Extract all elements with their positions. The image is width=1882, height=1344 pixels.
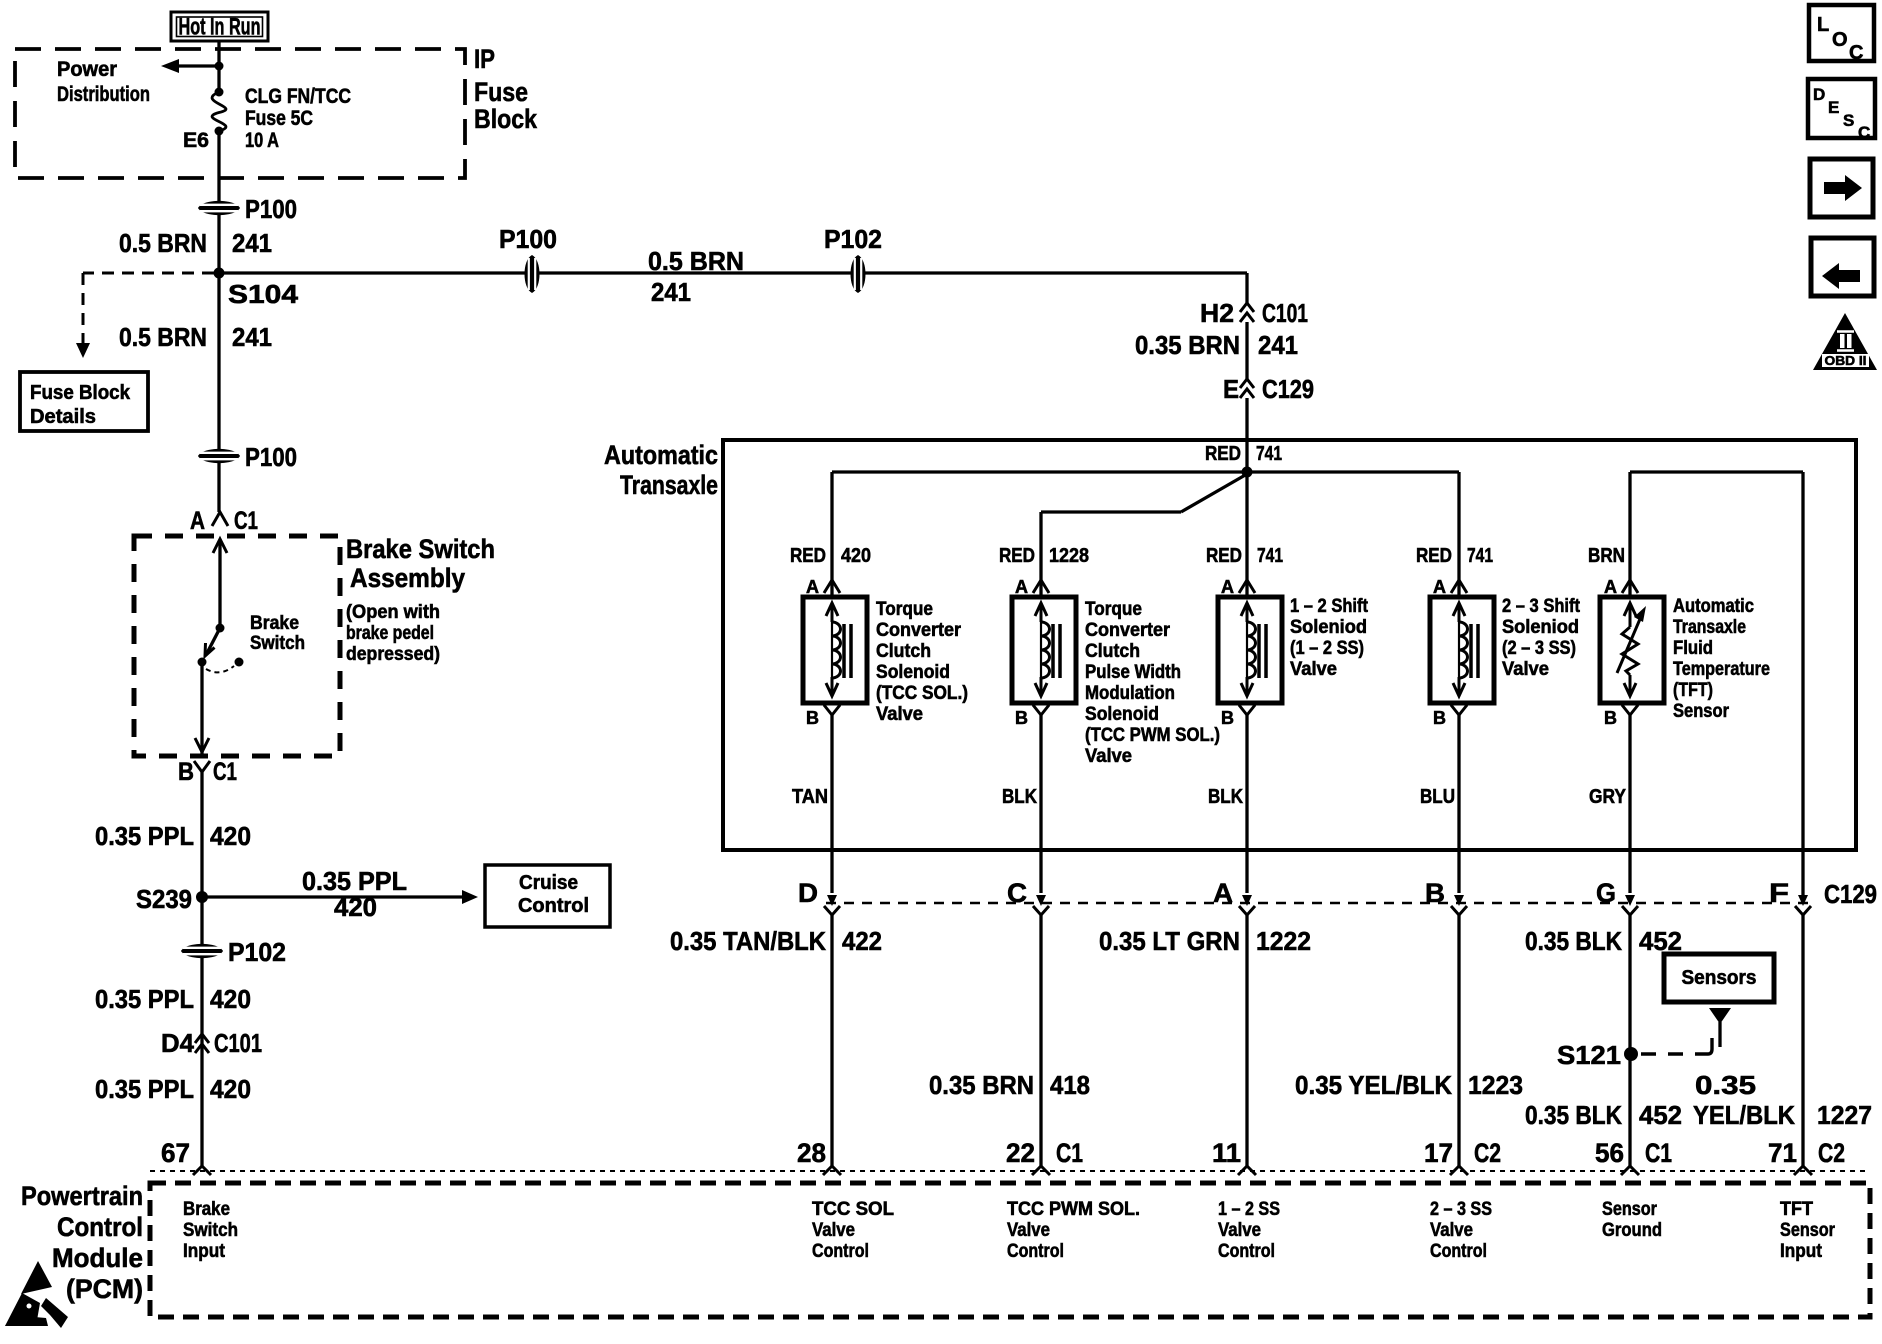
- svg-text:YEL/BLK: YEL/BLK: [1693, 1100, 1795, 1130]
- wire - P100 down to brake switch pin A: [217, 273, 220, 512]
- svg-text:Control: Control: [1430, 1241, 1487, 1262]
- label Automatic Transaxle Fluid Temperature (TFT) Sensor: [1673, 596, 1770, 722]
- svg-text:1227: 1227: [1817, 1100, 1872, 1130]
- svg-text:67: 67: [161, 1138, 190, 1168]
- PCM connector face (thin dashed): [150, 1170, 1870, 1172]
- svg-text:(PCM): (PCM): [66, 1274, 143, 1304]
- svg-text:1 – 2 Shift: 1 – 2 Shift: [1290, 596, 1369, 617]
- svg-text:(Open with: (Open with: [346, 602, 440, 623]
- svg-text:B: B: [1425, 878, 1445, 908]
- svg-text:28: 28: [797, 1138, 826, 1168]
- PCM input label at x=1007: [1007, 1199, 1140, 1262]
- wire - Hot In Run to fuse: [217, 41, 220, 92]
- wire label 0.5 BRN 241 (upper): [119, 228, 272, 258]
- wire - splice diagonal to TCC PWM SOL branch: [1041, 474, 1247, 597]
- svg-text:CLG FN/TCC: CLG FN/TCC: [245, 85, 351, 108]
- svg-text:Automatic: Automatic: [1673, 596, 1754, 617]
- wire - RED 741 drop to 1-2 SS: [1245, 472, 1248, 597]
- svg-text:Powertrain: Powertrain: [21, 1181, 143, 1211]
- connector C129 dashed line: [826, 879, 1877, 909]
- wire color label BLU: [1420, 786, 1455, 808]
- svg-text:Control: Control: [518, 895, 589, 917]
- pin A (sol 2-3): [1433, 577, 1467, 597]
- PCM pin 17 C2: [1424, 1138, 1501, 1175]
- pin B (sol 2-3): [1433, 705, 1467, 728]
- svg-text:Valve: Valve: [1085, 746, 1132, 767]
- svg-text:C2: C2: [1474, 1138, 1501, 1168]
- wire label RED 741 (at splice): [1205, 443, 1282, 465]
- pin B (sol TCC PWM): [1015, 705, 1049, 728]
- svg-text:C1: C1: [213, 758, 237, 786]
- svg-text:0.5 BRN: 0.5 BRN: [119, 228, 207, 258]
- wire label 0.35 BRN 241: [1135, 330, 1298, 360]
- connector C129 pin G: [1596, 878, 1638, 915]
- svg-text:A: A: [1604, 577, 1617, 597]
- svg-text:Brake: Brake: [250, 613, 299, 634]
- svg-text:0.35 BRN: 0.35 BRN: [1135, 330, 1240, 360]
- svg-text:Fluid: Fluid: [1673, 638, 1713, 659]
- svg-text:Brake Switch: Brake Switch: [346, 534, 495, 564]
- wire label RED 741 (2-3 SS): [1416, 545, 1493, 567]
- label 2-3 Shift Soleniod (2-3 SS) Valve: [1502, 596, 1581, 680]
- svg-text:B: B: [1015, 708, 1028, 728]
- icon forward arrow button: [1810, 159, 1873, 217]
- svg-text:B: B: [1604, 708, 1617, 728]
- label Torque Converter Clutch Solenoid (TCC SOL.) Valve: [876, 599, 968, 725]
- wire - C129 G to PCM 56 (sensor ground): [1628, 915, 1631, 1166]
- label E6 (fuse pin): [183, 129, 209, 152]
- svg-text:A: A: [806, 577, 819, 597]
- svg-text:S104: S104: [228, 279, 299, 309]
- svg-text:S: S: [1843, 111, 1854, 130]
- svg-text:Soleniod: Soleniod: [1502, 617, 1579, 638]
- svg-text:Module: Module: [52, 1243, 143, 1273]
- svg-text:C2: C2: [1818, 1138, 1845, 1168]
- PCM pin 11: [1212, 1138, 1256, 1175]
- svg-text:Switch: Switch: [250, 633, 305, 654]
- svg-text:241: 241: [232, 322, 272, 352]
- svg-text:Valve: Valve: [1502, 659, 1549, 680]
- svg-text:depressed): depressed): [346, 644, 440, 665]
- svg-text:Sensor: Sensor: [1780, 1220, 1836, 1241]
- svg-text:741: 741: [1256, 443, 1282, 465]
- wire label RED 1228: [999, 545, 1089, 567]
- svg-text:C101: C101: [1262, 298, 1308, 328]
- svg-text:brake pedel: brake pedel: [346, 623, 434, 644]
- svg-text:BLU: BLU: [1420, 786, 1455, 808]
- PCM input label at x=183: [183, 1199, 238, 1262]
- svg-text:1228: 1228: [1049, 545, 1089, 567]
- svg-text:Transaxle: Transaxle: [1673, 617, 1746, 638]
- svg-text:Sensor: Sensor: [1673, 701, 1730, 722]
- svg-text:OBD II: OBD II: [1825, 353, 1867, 368]
- svg-text:B: B: [806, 708, 819, 728]
- wire - sol 2-3 pin B down to C129: [1457, 722, 1460, 893]
- brake switch (SPST, shown closed): [195, 539, 244, 756]
- connector C129 pin C: [1007, 878, 1049, 915]
- PCM input label at x=1218: [1218, 1199, 1280, 1262]
- node - RED 741 splice: [1242, 467, 1253, 478]
- svg-text:420: 420: [334, 892, 377, 922]
- svg-text:(TCC PWM SOL.): (TCC PWM SOL.): [1085, 725, 1220, 746]
- svg-text:(2 – 3 SS): (2 – 3 SS): [1502, 638, 1576, 659]
- svg-text:Control: Control: [57, 1212, 143, 1242]
- svg-text:0.35 TAN/BLK: 0.35 TAN/BLK: [670, 926, 826, 956]
- svg-text:E6: E6: [183, 129, 209, 152]
- svg-text:0.35: 0.35: [1695, 1070, 1756, 1100]
- svg-text:F: F: [1769, 878, 1789, 908]
- wire - S239 down to P102: [200, 897, 203, 1166]
- svg-text:0.35 BLK: 0.35 BLK: [1525, 926, 1622, 956]
- svg-text:Input: Input: [1780, 1241, 1823, 1262]
- svg-text:P100: P100: [499, 224, 557, 254]
- connector C129 pin B: [1425, 878, 1467, 915]
- wire label RED 420: [790, 545, 871, 567]
- svg-text:0.5 BRN: 0.5 BRN: [648, 246, 744, 276]
- svg-text:BRN: BRN: [1588, 545, 1625, 567]
- wire label 0.35 PPL 420 (cruise branch): [302, 866, 407, 922]
- reference box Cruise Control: [485, 865, 610, 927]
- svg-text:Ground: Ground: [1602, 1220, 1662, 1241]
- wire - RED 741 drop to 2-3 SS: [1457, 472, 1460, 597]
- wire color label BLK: [1002, 786, 1037, 808]
- pin B (sol TCC): [806, 705, 840, 728]
- label Brake Switch Assembly: [346, 534, 495, 593]
- svg-text:1222: 1222: [1256, 926, 1311, 956]
- svg-text:P102: P102: [824, 224, 882, 254]
- wire color label GRY: [1589, 786, 1627, 808]
- svg-text:O: O: [1832, 29, 1848, 51]
- svg-text:Soleniod: Soleniod: [1290, 617, 1367, 638]
- svg-text:Pulse Width: Pulse Width: [1085, 662, 1181, 683]
- dashed reference - S121 to Sensors: [1641, 1038, 1712, 1054]
- pin A (sol TCC PWM): [1015, 577, 1049, 597]
- svg-text:420: 420: [210, 821, 251, 851]
- svg-text:0.35 PPL: 0.35 PPL: [95, 821, 194, 851]
- solenoid 1-2 shift (coil): [1218, 597, 1282, 703]
- fuse CLG FN/TCC 5C (symbol): [212, 88, 226, 136]
- svg-text:Fuse: Fuse: [474, 77, 528, 107]
- wire label 0.5 BRN 241 (mid horizontal): [648, 246, 744, 307]
- connector P102 (in-line on horizontal wire): [824, 224, 882, 293]
- svg-text:P100: P100: [245, 194, 297, 224]
- svg-text:10 A: 10 A: [245, 129, 279, 152]
- svg-text:Solenoid: Solenoid: [876, 662, 950, 683]
- svg-text:Torque: Torque: [876, 599, 933, 620]
- wire label RED 741 (1-2 SS): [1206, 545, 1283, 567]
- svg-text:0.35 LT GRN: 0.35 LT GRN: [1099, 926, 1240, 956]
- PCM input label at x=1602: [1602, 1199, 1662, 1241]
- sensor TFT thermistor: [1600, 597, 1664, 703]
- svg-text:Switch: Switch: [183, 1220, 238, 1241]
- connector C129 pin D: [798, 878, 840, 915]
- svg-text:Valve: Valve: [1218, 1220, 1261, 1241]
- label Automatic Transaxle: [604, 440, 718, 500]
- wire - sol TCC PWM pin B down to C129: [1039, 722, 1042, 893]
- svg-text:TAN: TAN: [792, 786, 828, 808]
- svg-text:0.35 YEL/BLK: 0.35 YEL/BLK: [1295, 1070, 1452, 1100]
- label 1-2 Shift Soleniod (1-2 SS) Valve: [1290, 596, 1369, 680]
- wire - C129 C to PCM 22: [1039, 915, 1042, 1166]
- svg-text:420: 420: [210, 1074, 251, 1104]
- solenoid 2-3 shift (coil): [1430, 597, 1494, 703]
- svg-text:0.35 BLK: 0.35 BLK: [1525, 1100, 1622, 1130]
- svg-text:C101: C101: [214, 1028, 262, 1058]
- wire - H2 to E C129: [1245, 322, 1248, 379]
- connector C101 pin H2 (in-line): [1200, 298, 1308, 328]
- svg-text:TCC SOL: TCC SOL: [812, 1199, 894, 1220]
- icon OBD II triangle: [1813, 313, 1877, 370]
- svg-text:B: B: [178, 758, 194, 786]
- svg-text:1223: 1223: [1468, 1070, 1523, 1100]
- wire - TFT feed loop from C129 F: [1630, 472, 1803, 897]
- svg-text:GRY: GRY: [1589, 786, 1627, 808]
- label Power Distribution: [57, 58, 150, 106]
- svg-text:418: 418: [1050, 1070, 1090, 1100]
- wire label 0.35 PPL 420 (above S239): [95, 821, 251, 851]
- svg-text:L: L: [1817, 14, 1829, 36]
- svg-text:C1: C1: [1056, 1138, 1083, 1168]
- PCM pin 56 C1: [1595, 1138, 1672, 1175]
- node - power distribution branch: [215, 62, 224, 71]
- wire label 0.35 TAN/BLK 422: [670, 926, 882, 956]
- svg-text:741: 741: [1257, 545, 1283, 567]
- svg-text:BLK: BLK: [1208, 786, 1243, 808]
- svg-text:D: D: [798, 878, 818, 908]
- label (Open with brake pedel depressed): [346, 602, 440, 665]
- svg-text:C129: C129: [1262, 374, 1314, 404]
- svg-text:Hot In Run: Hot In Run: [179, 14, 261, 41]
- svg-text:C: C: [1858, 123, 1870, 142]
- brake switch assembly dashed boundary: [134, 536, 340, 756]
- node S104 (splice): [214, 268, 299, 310]
- node S121 (splice): [1557, 1040, 1638, 1070]
- svg-text:(1 – 2 SS): (1 – 2 SS): [1290, 638, 1364, 659]
- svg-text:11: 11: [1212, 1138, 1241, 1168]
- svg-text:Control: Control: [1007, 1241, 1064, 1262]
- svg-text:P100: P100: [245, 442, 297, 472]
- svg-text:Details: Details: [30, 406, 96, 428]
- svg-text:(TCC SOL.): (TCC SOL.): [876, 683, 968, 704]
- svg-text:Torque: Torque: [1085, 599, 1142, 620]
- svg-text:Valve: Valve: [812, 1220, 855, 1241]
- icon back arrow button: [1811, 238, 1874, 296]
- svg-text:Valve: Valve: [876, 704, 923, 725]
- svg-text:452: 452: [1639, 1100, 1682, 1130]
- svg-text:1 – 2 SS: 1 – 2 SS: [1218, 1199, 1280, 1220]
- svg-text:A: A: [190, 507, 205, 535]
- svg-text:C1: C1: [234, 507, 258, 535]
- svg-text:2 – 3 Shift: 2 – 3 Shift: [1502, 596, 1581, 617]
- icon DESC button: [1808, 79, 1875, 142]
- svg-text:Modulation: Modulation: [1085, 683, 1175, 704]
- reference box Sensors: [1664, 954, 1774, 1002]
- svg-text:17: 17: [1424, 1138, 1453, 1168]
- svg-text:Fuse Block: Fuse Block: [30, 382, 131, 404]
- connector C101 pin D4 (in-line): [161, 1028, 262, 1058]
- svg-text:Brake: Brake: [183, 1199, 230, 1220]
- label IP Fuse Block: [474, 44, 538, 134]
- wire - TFT pin B down to C129: [1628, 722, 1631, 893]
- pin A (TFT): [1604, 577, 1638, 597]
- svg-text:(TFT): (TFT): [1673, 680, 1713, 701]
- PCM input label at x=812: [812, 1199, 894, 1262]
- wire color label BLK: [1208, 786, 1243, 808]
- wire - S104 to C101 (0.5 BRN 241): [219, 271, 1247, 274]
- wire - fuse E6 down to P100: [217, 131, 220, 273]
- svg-text:Power: Power: [57, 58, 117, 81]
- svg-text:BLK: BLK: [1002, 786, 1037, 808]
- pin A (sol 1-2): [1221, 577, 1255, 597]
- svg-text:S121: S121: [1557, 1040, 1621, 1070]
- wire - C129 F to PCM 71: [1801, 915, 1804, 1166]
- wire label 0.35 BLK 452 (lower): [1525, 1100, 1682, 1130]
- wire label BRN (TFT): [1588, 545, 1625, 567]
- svg-text:241: 241: [1258, 330, 1298, 360]
- svg-text:Assembly: Assembly: [350, 563, 465, 593]
- svg-text:RED: RED: [999, 545, 1035, 567]
- svg-text:22: 22: [1006, 1138, 1035, 1168]
- connector P100 (in-line, upper): [198, 194, 297, 224]
- svg-text:Clutch: Clutch: [1085, 641, 1140, 662]
- svg-text:2 – 3 SS: 2 – 3 SS: [1430, 1199, 1492, 1220]
- pin A (sol TCC): [806, 577, 840, 597]
- pin B C1 of brake switch: [178, 758, 237, 786]
- svg-text:Input: Input: [183, 1241, 226, 1262]
- wire - E C129 into transaxle to splice: [1245, 398, 1248, 472]
- connector C129 pin F: [1769, 878, 1811, 915]
- connector P100 (in-line on horizontal wire): [499, 224, 557, 293]
- wire label 0.35 BRN 418: [929, 1070, 1090, 1100]
- svg-text:E: E: [1828, 98, 1839, 117]
- svg-text:E: E: [1223, 374, 1239, 404]
- connector C129 pin E (in-line): [1223, 374, 1314, 404]
- svg-text:Temperature: Temperature: [1673, 659, 1770, 680]
- svg-text:Valve: Valve: [1430, 1220, 1473, 1241]
- svg-text:Clutch: Clutch: [876, 641, 931, 662]
- IP fuse block dashed boundary: [15, 49, 465, 178]
- wire label 0.35 PPL 420 (above PCM): [95, 1074, 251, 1104]
- PCM pin 71 C2: [1768, 1138, 1845, 1175]
- pointer - sensors triangle: [1709, 1008, 1731, 1047]
- icon LOC button: [1809, 5, 1874, 64]
- svg-text:S239: S239: [136, 884, 192, 914]
- svg-text:Cruise: Cruise: [519, 872, 578, 894]
- label Torque Converter Clutch Pulse Width Modulation Solenoid (TCC PWM SOL.) Valve: [1085, 599, 1220, 767]
- PCM input label at x=1780: [1780, 1199, 1836, 1262]
- svg-text:Sensors: Sensors: [1682, 967, 1757, 989]
- PCM input label at x=1430: [1430, 1199, 1492, 1262]
- svg-text:741: 741: [1467, 545, 1493, 567]
- svg-text:Solenoid: Solenoid: [1085, 704, 1159, 725]
- wire - sol TCC pin B down to C129: [830, 722, 833, 893]
- svg-text:Valve: Valve: [1007, 1220, 1050, 1241]
- wire - sol 1-2 pin B down to C129: [1245, 722, 1248, 893]
- svg-text:RED: RED: [790, 545, 826, 567]
- solenoid TCC SOL (coil): [803, 597, 867, 703]
- svg-text:A: A: [1221, 577, 1234, 597]
- svg-text:71: 71: [1768, 1138, 1797, 1168]
- wire - down from corner to H2 C101: [1245, 273, 1248, 303]
- wire - C129 B to PCM 17: [1457, 915, 1460, 1166]
- component box - Automatic Transaxle: [723, 440, 1856, 850]
- svg-text:TCC PWM SOL.: TCC PWM SOL.: [1007, 1199, 1140, 1220]
- svg-text:D4: D4: [161, 1028, 195, 1058]
- wire label 0.35 PPL 420 (below P102): [95, 984, 251, 1014]
- svg-text:Control: Control: [1218, 1241, 1275, 1262]
- svg-text:Block: Block: [474, 104, 538, 134]
- connector C129 pin A: [1213, 878, 1255, 915]
- ESD warning symbol: [5, 1261, 68, 1328]
- wire label 0.35 YEL/BLK 1223: [1295, 1070, 1523, 1100]
- svg-text:C129: C129: [1824, 879, 1877, 909]
- PCM pin 28: [797, 1138, 841, 1175]
- svg-text:D: D: [1813, 85, 1825, 104]
- svg-text:B: B: [1221, 708, 1234, 728]
- svg-text:Converter: Converter: [876, 620, 962, 641]
- svg-text:B: B: [1433, 708, 1446, 728]
- svg-text:A: A: [1213, 878, 1233, 908]
- reference box Fuse Block Details: [20, 372, 148, 431]
- wire color label TAN: [792, 786, 828, 808]
- PCM module dashed boundary: [150, 1183, 1870, 1317]
- svg-text:56: 56: [1595, 1138, 1624, 1168]
- PCM pin 67: [161, 1138, 211, 1175]
- svg-text:C: C: [1007, 878, 1027, 908]
- svg-text:Transaxle: Transaxle: [620, 470, 718, 500]
- svg-text:420: 420: [210, 984, 251, 1014]
- label fuse value CLG FN/TCC Fuse 5C 10 A: [245, 85, 351, 152]
- svg-text:0.35 BRN: 0.35 BRN: [929, 1070, 1034, 1100]
- svg-text:Sensor: Sensor: [1602, 1199, 1658, 1220]
- wire - C129 D to PCM 28: [830, 915, 833, 1166]
- solenoid TCC PWM SOL (coil): [1012, 597, 1076, 703]
- svg-text:RED: RED: [1416, 545, 1452, 567]
- power feed label box 'Hot In Run': [171, 12, 268, 41]
- svg-text:C: C: [1849, 42, 1863, 64]
- svg-text:Fuse 5C: Fuse 5C: [245, 107, 313, 130]
- svg-text:Control: Control: [812, 1241, 869, 1262]
- svg-text:G: G: [1596, 878, 1616, 908]
- svg-text:P102: P102: [228, 937, 286, 967]
- svg-text:IP: IP: [474, 44, 495, 74]
- svg-text:0.5 BRN: 0.5 BRN: [119, 322, 207, 352]
- svg-text:Valve: Valve: [1290, 659, 1337, 680]
- wire label 0.35 LT GRN 1222: [1099, 926, 1311, 956]
- connector P100 (in-line, lower): [198, 442, 297, 472]
- svg-text:H2: H2: [1200, 298, 1234, 328]
- wire label 0.35 BLK 452 (upper): [1525, 926, 1682, 956]
- svg-text:Converter: Converter: [1085, 620, 1171, 641]
- wire - C129 A to PCM 11: [1245, 915, 1248, 1166]
- pin B (sol 1-2): [1221, 705, 1255, 728]
- svg-text:0.35 PPL: 0.35 PPL: [95, 1074, 194, 1104]
- label Powertrain Control Module (PCM): [21, 1181, 143, 1304]
- svg-text:A: A: [1433, 577, 1446, 597]
- svg-text:Automatic: Automatic: [604, 440, 718, 470]
- label Brake Switch (inside box): [250, 613, 305, 654]
- svg-text:RED: RED: [1205, 443, 1241, 465]
- svg-text:241: 241: [651, 277, 691, 307]
- pin B (TFT): [1604, 705, 1638, 728]
- svg-text:C1: C1: [1645, 1138, 1672, 1168]
- svg-text:420: 420: [841, 545, 871, 567]
- svg-text:241: 241: [232, 228, 272, 258]
- wire - S239 branch to Cruise Control with arrow: [202, 890, 478, 904]
- wire label 0.35 PPL 420 is absent here; pin A C1 label: [190, 507, 258, 535]
- wire - brake switch to S239 (0.35 PPL): [200, 779, 203, 897]
- PCM pin 22 C1: [1006, 1138, 1083, 1175]
